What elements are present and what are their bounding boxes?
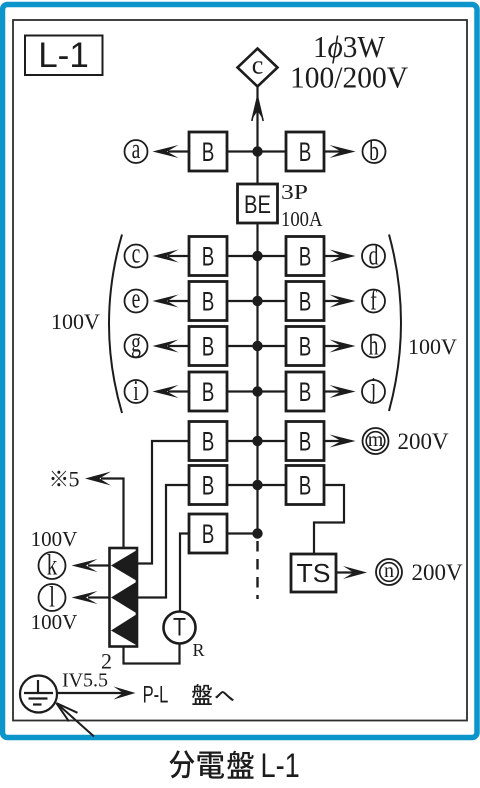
ground electrode: [20, 676, 57, 713]
arrow to e: [153, 295, 190, 308]
wire ground to P-L with arrow: [57, 687, 136, 700]
arrow to f: [324, 295, 356, 308]
wire row m left to arrester: [137, 441, 189, 564]
node j: [362, 373, 385, 404]
main breaker BE: [238, 184, 278, 223]
label 200V row n: [411, 560, 463, 585]
svg-text:IV5.5: IV5.5: [62, 670, 108, 692]
svg-text:L-1: L-1: [261, 746, 300, 785]
panel name box L-1: [25, 36, 103, 76]
label 100V left: [51, 309, 100, 334]
svg-text:B: B: [202, 286, 215, 316]
node junction row 2: [252, 480, 262, 490]
svg-text:k: k: [47, 548, 58, 582]
svg-text:B: B: [299, 377, 312, 407]
arrow to n: [336, 566, 367, 579]
group bracket left: [109, 235, 122, 414]
caption: [169, 746, 299, 785]
svg-text:B: B: [299, 286, 312, 316]
wire row 2: [227, 484, 286, 486]
node junction row i-j: [252, 386, 262, 396]
arrow to l: [72, 591, 110, 604]
svg-text:g: g: [131, 327, 141, 358]
node d: [362, 240, 385, 271]
annotation arrow to ground: [56, 703, 94, 737]
wire row m: [227, 440, 286, 442]
svg-text:i: i: [133, 376, 139, 407]
label 2: [101, 649, 112, 674]
svg-text:h: h: [369, 330, 379, 361]
node junction row 3: [252, 528, 262, 538]
wire row 2 right to TS: [314, 485, 344, 554]
svg-text:B: B: [299, 331, 312, 361]
node m: [363, 428, 389, 454]
breaker B row j: [286, 372, 324, 411]
svg-text:B: B: [202, 377, 215, 407]
svg-text:100V: 100V: [408, 334, 457, 359]
label ※5: [51, 467, 79, 492]
svg-text:l: l: [49, 580, 55, 614]
arrow to ※5 and wire to arrester top: [85, 472, 124, 549]
wire row i-j: [227, 390, 286, 392]
svg-text:100A: 100A: [281, 207, 323, 231]
svg-text:3P: 3P: [281, 180, 308, 204]
svg-text:B: B: [202, 241, 215, 271]
wire row e-f: [227, 300, 286, 302]
arrow to g: [153, 340, 190, 353]
svg-text:c: c: [132, 238, 141, 269]
arrow to c: [153, 250, 190, 263]
svg-text:B: B: [299, 241, 312, 271]
wire row 3 left to timer T: [180, 534, 189, 612]
node a: [125, 134, 148, 165]
svg-text:P-L: P-L: [143, 682, 169, 709]
wire main bus dashed end: [256, 541, 258, 599]
svg-text:B: B: [202, 331, 215, 361]
svg-text:200V: 200V: [397, 429, 449, 454]
wire main bus upper with up arrow: [252, 87, 264, 184]
label 100V for l: [31, 610, 78, 634]
wire main bus lower: [256, 223, 258, 534]
breaker B row f: [286, 282, 324, 321]
node h: [362, 330, 385, 361]
breaker B row c: [189, 237, 227, 276]
node f: [362, 285, 385, 316]
svg-text:m: m: [368, 429, 384, 451]
label 1φ3W: [313, 29, 386, 64]
breaker B row m right: [286, 422, 324, 461]
node junction row a-b: [252, 146, 262, 156]
wire row 3: [227, 532, 258, 534]
node b: [363, 136, 386, 167]
label 100A: [281, 207, 323, 231]
svg-text:TS: TS: [297, 558, 331, 588]
svg-text:f: f: [370, 285, 377, 316]
breaker B row h: [286, 327, 324, 366]
node c: [125, 238, 148, 269]
label 3P: [281, 180, 308, 204]
breaker B row m left: [189, 422, 227, 461]
arrow to b: [324, 145, 356, 158]
node n: [376, 559, 402, 585]
svg-text:a: a: [132, 134, 141, 165]
svg-text:B: B: [202, 426, 215, 456]
timer T: [164, 612, 196, 644]
wire row 2 left to arrester: [137, 485, 189, 598]
svg-text:B: B: [202, 470, 215, 500]
arrester block: [110, 548, 138, 647]
svg-text:B: B: [299, 426, 312, 456]
svg-text:B: B: [202, 137, 215, 167]
node l: [39, 580, 66, 614]
label 200V row m: [397, 429, 449, 454]
svg-text:100V: 100V: [51, 309, 100, 334]
node junction row c-d: [252, 251, 262, 261]
svg-text:L-1: L-1: [38, 36, 89, 75]
breaker B row 2 left: [189, 466, 227, 505]
breaker B row g: [189, 327, 227, 366]
arrow to h: [324, 340, 356, 353]
svg-text:200V: 200V: [411, 560, 463, 585]
svg-text:5: 5: [69, 467, 80, 492]
arrow to m: [324, 435, 356, 448]
breaker B row b: [286, 132, 324, 171]
node junction row m: [252, 436, 262, 446]
breaker B row i: [189, 372, 227, 411]
svg-text:d: d: [369, 240, 379, 271]
arrow to d: [324, 250, 356, 263]
wire row c-d: [227, 255, 286, 257]
wire arrester bottom to timer: [124, 644, 180, 664]
svg-text:100/200V: 100/200V: [290, 60, 409, 95]
breaker B row 3: [189, 514, 227, 553]
svg-text:n: n: [384, 560, 394, 582]
svg-text:BE: BE: [244, 191, 271, 219]
breaker B row d: [286, 237, 324, 276]
label 100V right: [408, 334, 457, 359]
node e: [125, 283, 148, 314]
label IV5.5: [62, 670, 108, 692]
svg-text:B: B: [299, 470, 312, 500]
svg-text:b: b: [369, 136, 379, 167]
node i: [125, 376, 148, 407]
arrow to k: [72, 559, 110, 572]
node g: [125, 327, 148, 358]
label 100/200V: [290, 60, 409, 95]
breaker B row 2 right: [286, 466, 324, 505]
wire row a-b: [227, 150, 286, 152]
node k: [39, 548, 66, 582]
svg-text:R: R: [193, 640, 205, 660]
timeswitch TS: [291, 554, 336, 592]
arrow to j: [324, 385, 356, 398]
svg-text:c: c: [252, 51, 264, 80]
svg-text:100V: 100V: [31, 610, 78, 634]
label R: [193, 640, 205, 660]
arrow to i: [153, 385, 190, 398]
svg-text:T: T: [173, 613, 186, 641]
breaker B row e: [189, 282, 227, 321]
svg-text:B: B: [299, 137, 312, 167]
svg-text:B: B: [202, 519, 215, 549]
node junction row g-h: [252, 341, 262, 351]
svg-text:j: j: [370, 373, 376, 404]
wire row g-h: [227, 345, 286, 347]
label P-L 盤へ: [143, 682, 234, 709]
group bracket right: [389, 235, 401, 412]
incoming source symbol c (diamond): [238, 49, 278, 87]
breaker B row a: [189, 132, 227, 171]
svg-text:e: e: [132, 283, 141, 314]
label 100V for k: [31, 527, 78, 551]
node junction row e-f: [252, 296, 262, 306]
arrow to a: [153, 145, 190, 158]
